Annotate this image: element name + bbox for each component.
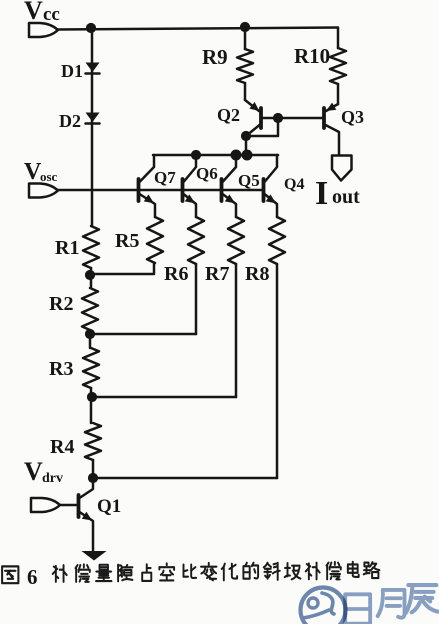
terminal Vdrv [31, 498, 60, 512]
terminal Vcc [29, 23, 58, 37]
resistor R7 [228, 217, 244, 264]
resistor R10 [330, 48, 346, 84]
svg-text:Q3: Q3 [341, 107, 364, 127]
node Vdrv junction [88, 473, 98, 483]
svg-text:6: 6 [27, 565, 38, 589]
svg-text:osc: osc [40, 169, 58, 184]
junction dot at Vcc rail / diode chain [86, 23, 96, 33]
svg-text:V: V [24, 457, 43, 486]
node R1-R2 junction [85, 270, 95, 280]
svg-text:R3: R3 [49, 358, 73, 380]
transistor Q4 [262, 179, 266, 201]
junction dot bus Q6 [191, 150, 201, 160]
svg-text:R1: R1 [55, 237, 79, 259]
wire tap to R7 [92, 396, 236, 399]
node R3-R4 junction [87, 392, 97, 402]
diode D2 [86, 113, 100, 123]
svg-text:drv: drv [42, 471, 63, 486]
svg-text:Q2: Q2 [217, 105, 240, 125]
terminal Vosc [29, 184, 58, 198]
svg-text:R6: R6 [164, 263, 188, 285]
svg-text:R4: R4 [50, 436, 74, 458]
svg-text:R5: R5 [115, 230, 139, 252]
resistor R4 [85, 423, 101, 460]
svg-text:Q5: Q5 [238, 171, 260, 190]
transistor Q6 [181, 179, 185, 201]
svg-text:V: V [24, 0, 43, 25]
svg-text:R2: R2 [49, 293, 73, 315]
transistor Q5 [220, 179, 224, 201]
svg-text:R8: R8 [245, 263, 269, 285]
svg-text:I: I [315, 175, 328, 212]
node collector junction dot [241, 131, 251, 141]
svg-text:Q4: Q4 [284, 176, 304, 193]
node Vcc top rail wire [57, 28, 338, 30]
svg-text:D2: D2 [59, 111, 81, 131]
svg-text:out: out [332, 186, 360, 208]
wire Vosc base line [58, 189, 264, 192]
wire base-to-collector step [246, 118, 278, 155]
resistor R9 [244, 27, 247, 49]
transistor Q7 [137, 179, 141, 201]
ground [82, 551, 107, 561]
svg-text:Q6: Q6 [196, 164, 218, 183]
diode D1 [86, 63, 100, 73]
svg-text:D1: D1 [61, 61, 83, 81]
transistor Q3 [322, 108, 326, 128]
svg-text:Q7: Q7 [154, 168, 176, 187]
wire tap to R6 [90, 333, 196, 336]
resistor R8 [269, 217, 285, 264]
watermark logo circle [301, 588, 346, 624]
wire Vcc vertical through D1 D2 down to Vosc line [91, 28, 94, 226]
junction dot bus Q2-branch [242, 150, 253, 161]
svg-text:R10: R10 [294, 44, 330, 68]
resistor R1 [83, 226, 99, 268]
transistor Q2 [259, 108, 263, 128]
junction dot bus Q5 [231, 150, 242, 161]
wire top-right corner down to R10 [337, 28, 340, 48]
resistor R2 [82, 288, 98, 330]
svg-text:R7: R7 [205, 263, 229, 285]
wire Q2-Q3 base line [263, 117, 322, 120]
svg-text:Q1: Q1 [97, 496, 121, 517]
terminal Iout [332, 156, 352, 181]
wire Vdrv to Q1 base [60, 504, 77, 507]
svg-text:R9: R9 [202, 45, 228, 69]
svg-text:cc: cc [43, 4, 60, 25]
junction dot at Vcc rail / R9 [240, 22, 250, 32]
node base junction dot [273, 113, 283, 123]
caption text 图6 斜坡补偿电路 [2, 566, 18, 583]
resistor R3 [83, 348, 99, 388]
watermark text 日月辰 [345, 585, 437, 624]
resistor R6 [188, 217, 204, 264]
node R2-R3 junction [85, 329, 95, 339]
resistor R5 [147, 217, 163, 263]
wire tap to R5 [90, 263, 154, 274]
wire collector bus [153, 154, 278, 157]
transistor Q1 [77, 495, 81, 517]
wire tap to R8 [93, 477, 277, 480]
